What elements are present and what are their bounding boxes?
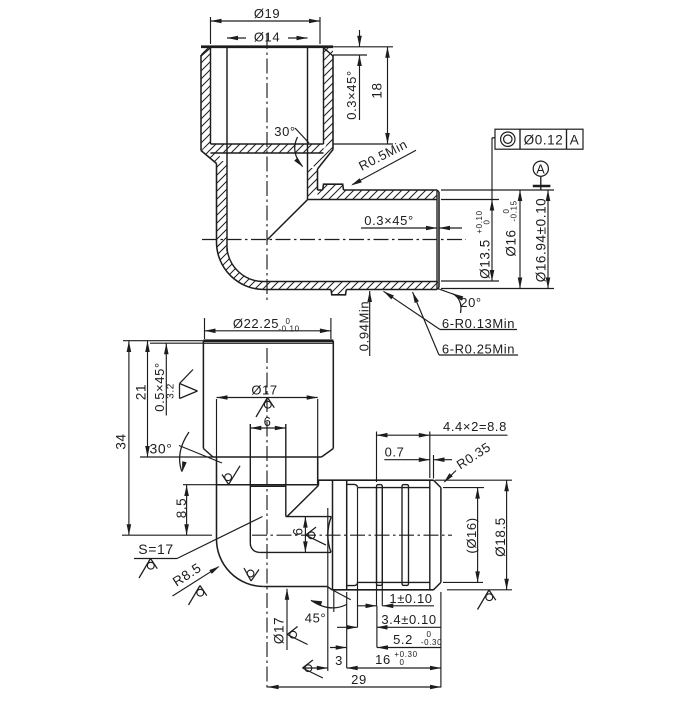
svg-text:-0.30: -0.30 — [421, 638, 442, 647]
svg-text:(Ø16): (Ø16) — [464, 517, 479, 553]
svg-text:18: 18 — [370, 82, 385, 98]
svg-text:0.3×45°: 0.3×45° — [344, 70, 359, 120]
svg-text:-0.15: -0.15 — [510, 200, 519, 221]
svg-text:Ø22.25: Ø22.25 — [233, 316, 279, 331]
svg-text:3.4±0.10: 3.4±0.10 — [381, 612, 436, 627]
svg-text:Ø14: Ø14 — [254, 30, 280, 45]
svg-text:6-R0.25Min: 6-R0.25Min — [442, 342, 515, 357]
svg-text:3.2: 3.2 — [166, 383, 177, 399]
svg-text:Ø17: Ø17 — [251, 383, 277, 398]
svg-text:A: A — [570, 132, 580, 147]
svg-text:-0.10: -0.10 — [278, 325, 299, 334]
svg-text:Ø16.94±0.10: Ø16.94±0.10 — [534, 198, 549, 283]
svg-text:20°: 20° — [460, 295, 481, 310]
svg-text:30°: 30° — [274, 124, 295, 139]
svg-text:Ø0.12: Ø0.12 — [524, 132, 564, 147]
svg-text:Ø16: Ø16 — [504, 229, 519, 256]
svg-text:A: A — [536, 162, 545, 176]
svg-text:0: 0 — [483, 219, 492, 224]
svg-text:45°: 45° — [305, 611, 326, 626]
svg-text:Ø17: Ø17 — [272, 617, 287, 644]
svg-text:1±0.10: 1±0.10 — [389, 591, 432, 606]
svg-text:0.3×45°: 0.3×45° — [364, 213, 414, 228]
svg-text:3: 3 — [335, 653, 343, 668]
svg-text:6: 6 — [264, 414, 272, 429]
svg-text:16: 16 — [375, 652, 391, 667]
svg-text:0.94Min: 0.94Min — [357, 301, 372, 351]
svg-text:21: 21 — [134, 384, 149, 400]
svg-text:34: 34 — [114, 433, 129, 449]
svg-text:6: 6 — [291, 527, 306, 535]
svg-text:Ø18.5: Ø18.5 — [493, 517, 508, 557]
svg-text:4.4×2=8.8: 4.4×2=8.8 — [443, 419, 507, 434]
svg-text:30°: 30° — [150, 441, 173, 457]
svg-text:29: 29 — [351, 672, 367, 687]
svg-text:Ø19: Ø19 — [254, 6, 280, 21]
svg-text:S=17: S=17 — [138, 541, 174, 557]
svg-text:0: 0 — [399, 658, 404, 667]
svg-text:8.5: 8.5 — [174, 498, 189, 519]
svg-text:Ø13.5: Ø13.5 — [478, 239, 493, 279]
svg-text:6-R0.13Min: 6-R0.13Min — [442, 316, 515, 331]
svg-text:0.7: 0.7 — [385, 445, 405, 460]
svg-text:5.2: 5.2 — [393, 632, 413, 647]
svg-text:+0.30: +0.30 — [394, 650, 417, 659]
